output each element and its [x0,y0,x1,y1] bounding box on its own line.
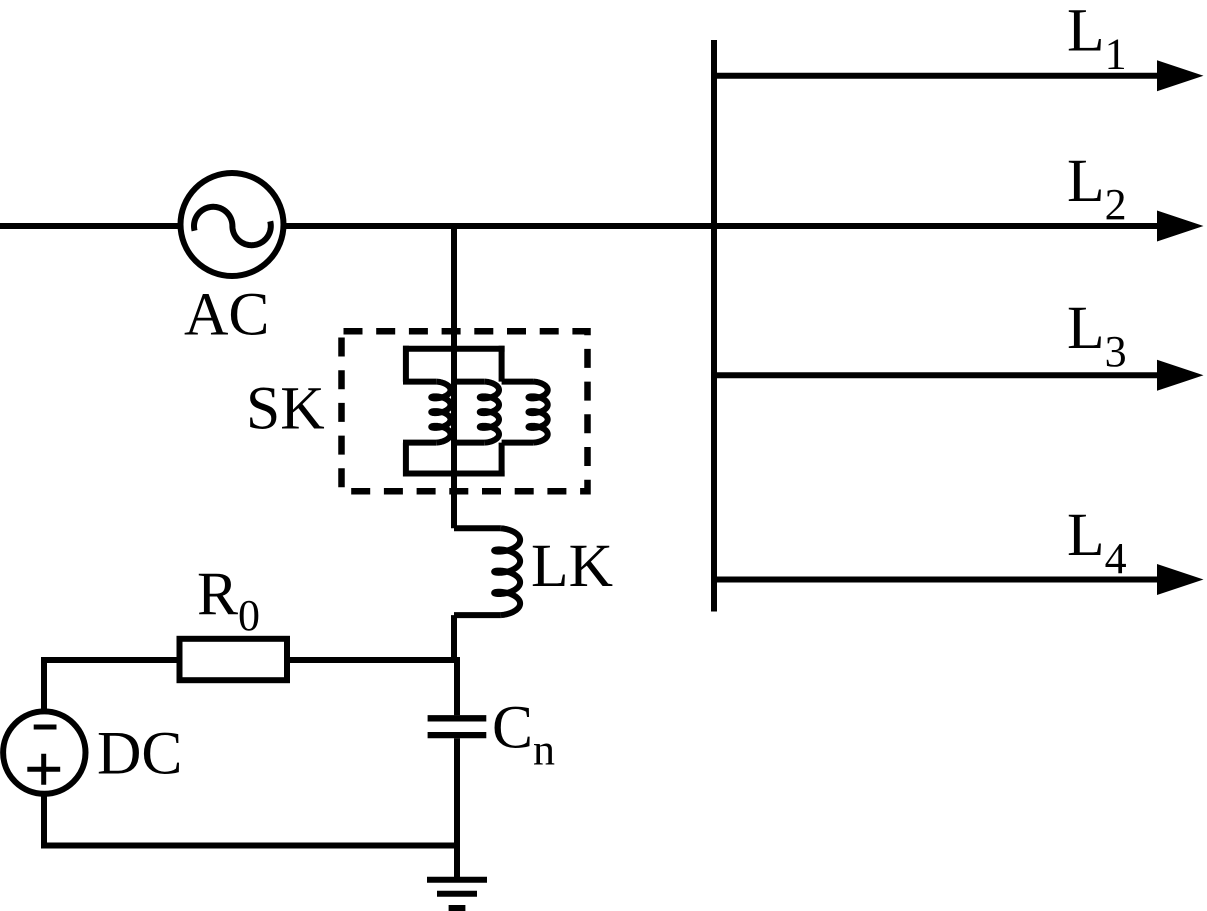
capacitor Cn bottom plate [428,732,487,738]
wire LK to node [451,615,457,663]
wire DC bottom lead [41,793,47,846]
feeder line L4 with arrow [714,577,1160,583]
inductor LK top lead [454,525,501,531]
svg-text:L3: L3 [1067,294,1127,376]
svg-text:L1: L1 [1067,0,1127,78]
resistor R0 body [180,639,288,680]
SK winding 2 coil [480,382,499,443]
SK left vertical lower [403,443,409,477]
bus bar [711,40,717,612]
AC source U1 circle [181,173,284,276]
DC source U2 circle [3,711,85,793]
inductor LK coil [494,528,520,615]
svg-text:SK: SK [246,375,325,443]
ground symbol [427,880,487,908]
capacitor Cn top plate [428,715,487,721]
wire junction vertical from feeder down through SK box to LK [451,226,457,528]
wire node to R0 right lead [287,657,460,663]
SK bottom bar [403,471,505,477]
SK winding 1 bottom lead [403,440,436,446]
SK winding 3 coil [529,382,548,443]
wire capacitor to ground [454,738,460,879]
SK winding 2 bottom lead [452,440,485,446]
svg-text:L4: L4 [1067,501,1127,583]
feeder line L1 with arrow [714,73,1160,79]
wire bottom return to ground node [41,843,457,849]
SK winding 1 coil [431,382,450,443]
SK top bar [403,346,505,352]
svg-text:LK: LK [531,532,613,600]
SK winding 3 top lead [502,379,534,385]
AC source sine symbol [194,207,271,245]
svg-text:AC: AC [184,280,269,348]
DC source plus sign [27,754,60,785]
SK left vertical upper [403,346,409,382]
feeder line L2 with arrow [714,223,1160,229]
svg-text:Cn: Cn [492,694,555,775]
feeder line L3 with arrow [714,372,1160,378]
wire corner down to DC source [41,657,47,712]
saturable reactor SK dashed enclosure [342,331,588,491]
svg-text:DC: DC [97,719,182,787]
svg-text:R0: R0 [197,560,260,640]
SK right vertical lower [499,443,505,477]
SK winding 3 bottom lead [502,440,534,446]
svg-text:L2: L2 [1067,147,1127,229]
wire R0 left lead to corner [44,657,180,663]
SK winding 2 top lead [452,379,485,385]
SK right vertical upper [499,346,505,382]
DC source minus sign [34,725,57,730]
SK winding 1 top lead [403,379,436,385]
wire node to capacitor Cn [454,657,460,715]
inductor LK bottom lead [454,612,501,618]
wire feeder from left edge to bus bar [0,223,714,229]
